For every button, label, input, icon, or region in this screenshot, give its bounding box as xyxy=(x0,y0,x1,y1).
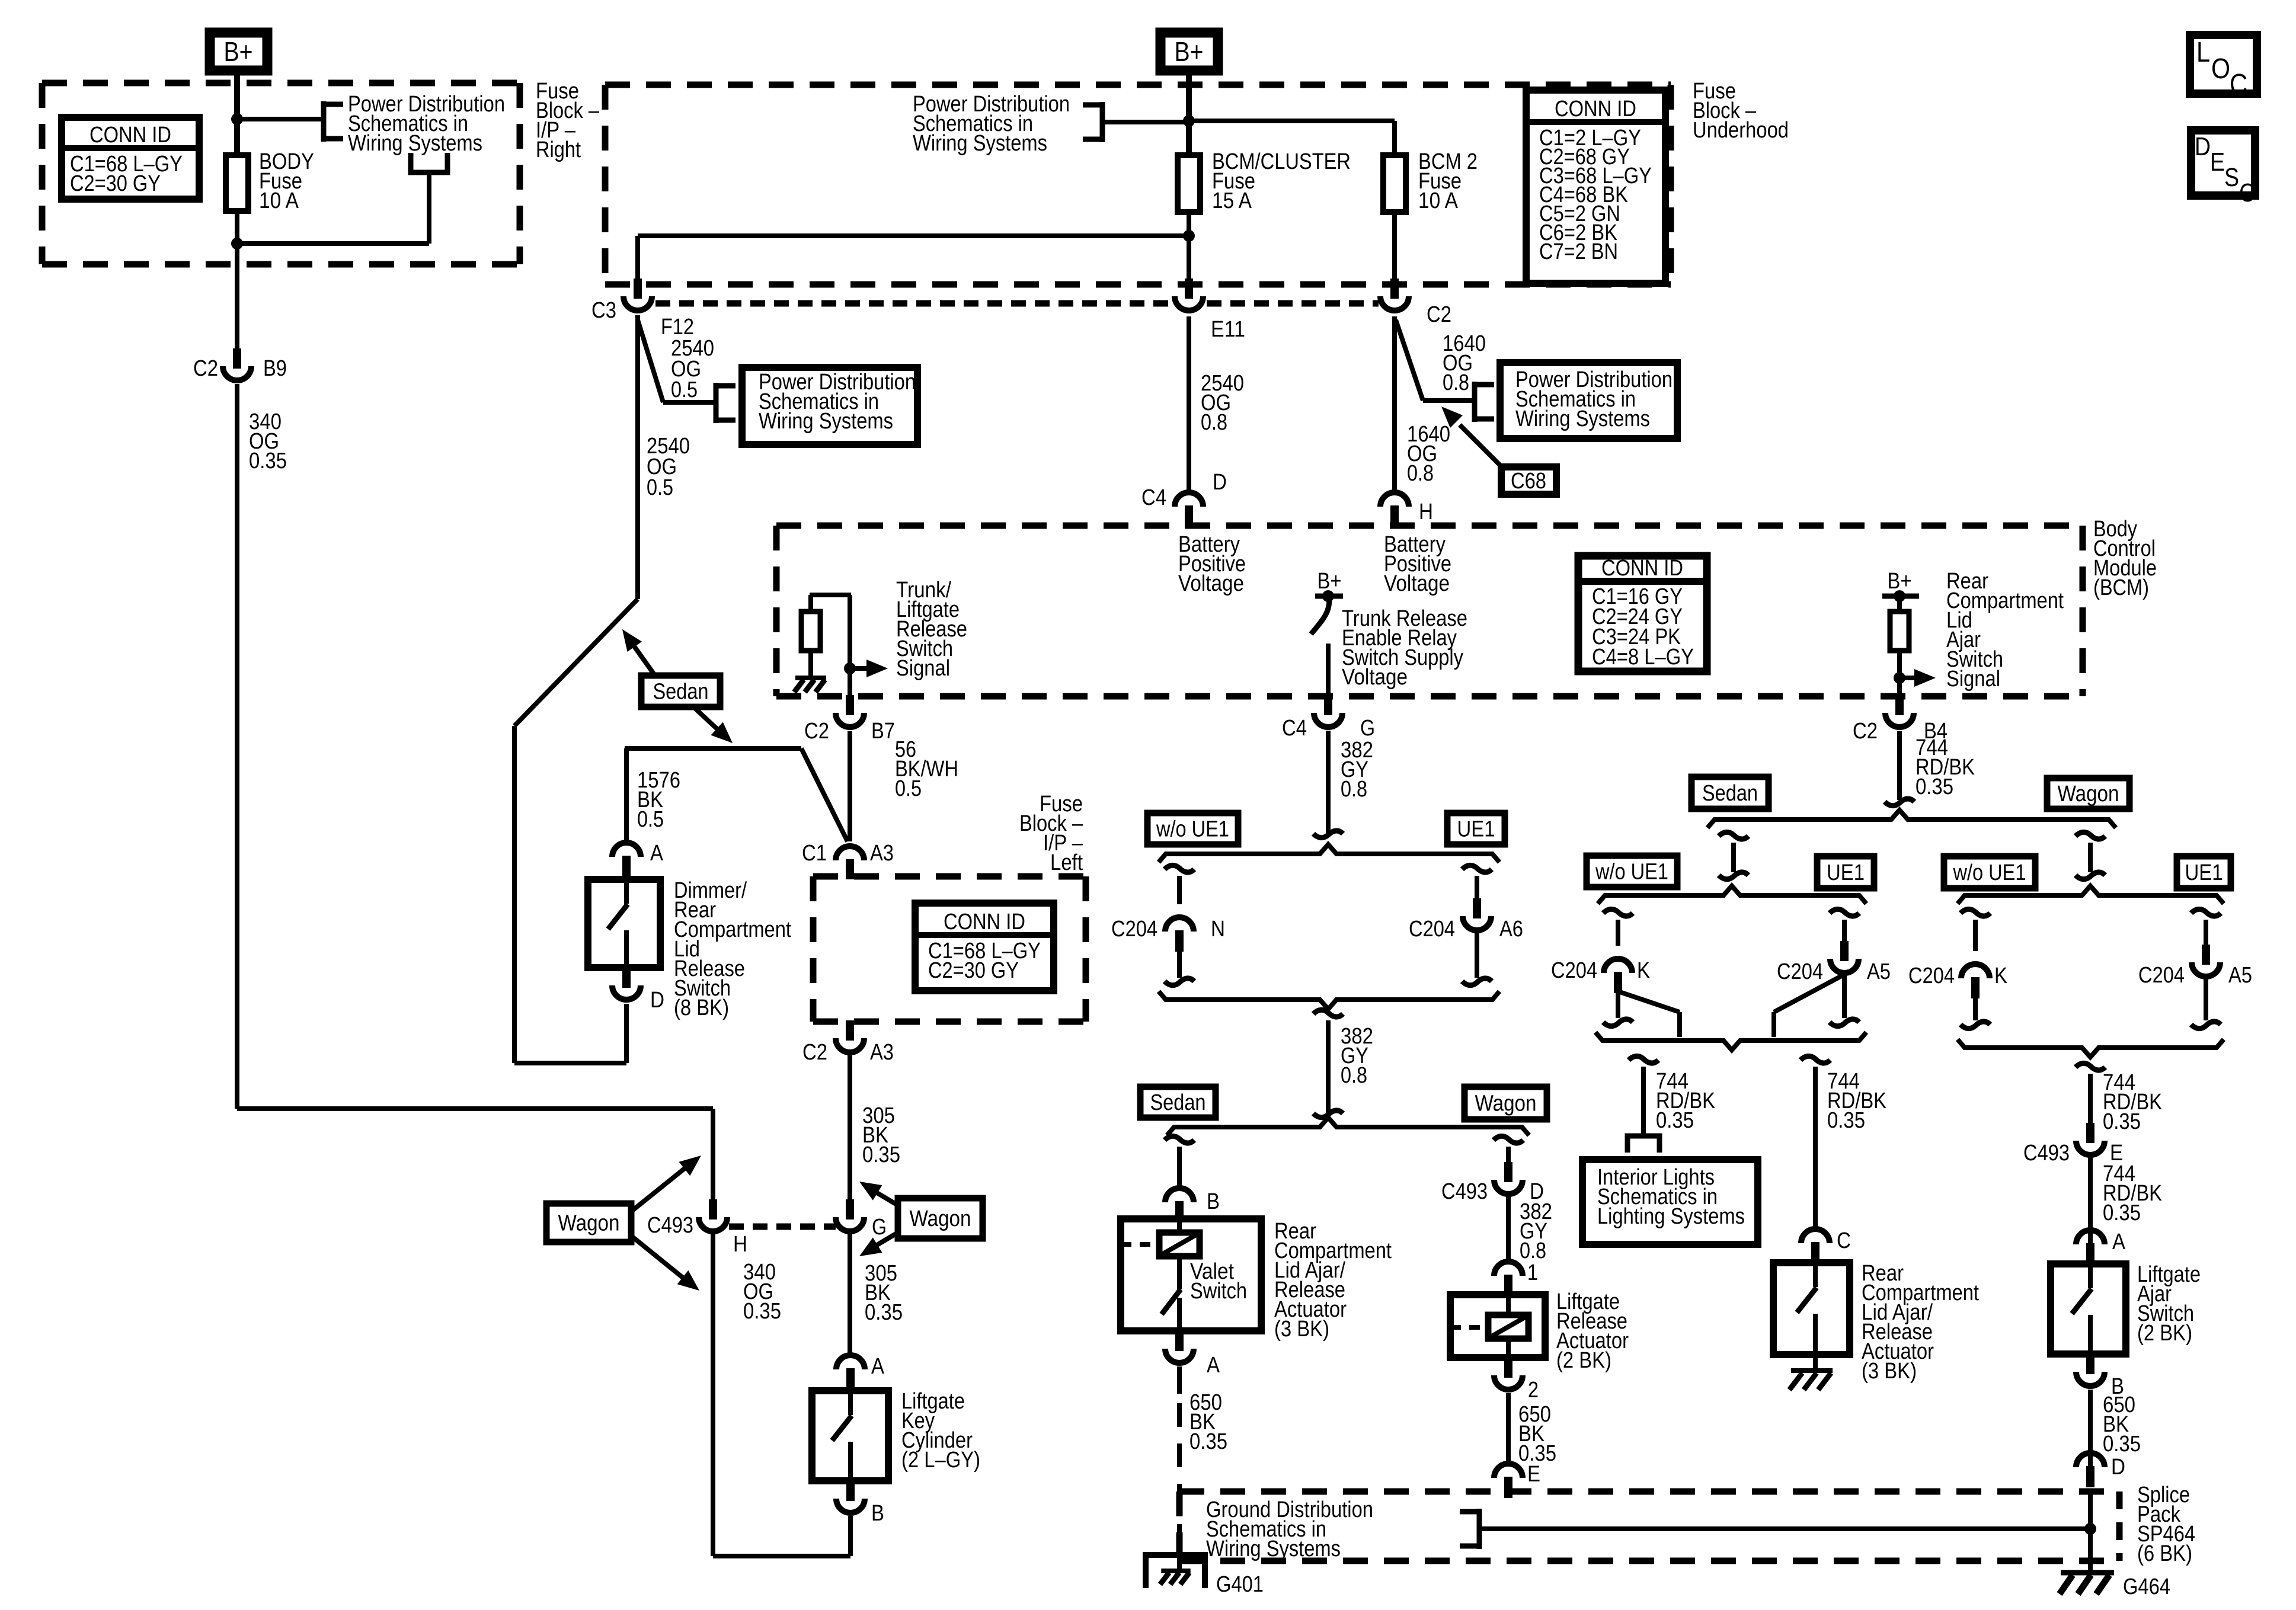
svg-text:H: H xyxy=(1419,500,1433,524)
svg-text:H: H xyxy=(733,1232,747,1257)
wire 56 BK/WH 0.5 (B7 to A3) xyxy=(848,731,852,841)
off-page bracket to Power Distribution box (right) xyxy=(1475,382,1494,422)
wire to C204 A5 (sedan) xyxy=(1842,920,1847,942)
wire fuse to E11 xyxy=(1187,212,1191,280)
label wire 305 BK 0.35 xyxy=(862,1103,900,1167)
wire splice to G464 xyxy=(2088,1491,2093,1571)
rear compartment lid ajar/release actuator box xyxy=(1773,1263,1850,1355)
arrow Wagon-left down xyxy=(633,1237,699,1291)
svg-text:UE1: UE1 xyxy=(1827,860,1865,885)
reference box LOC xyxy=(2190,35,2257,100)
label wire 744 RD/BK 0.35 (interior lights) xyxy=(1656,1069,1715,1133)
svg-text:A5: A5 xyxy=(2228,963,2252,988)
svg-text:15 A: 15 A xyxy=(1212,188,1252,213)
branch curl (wagon w/o UE1) xyxy=(1961,909,1990,916)
svg-text:10 A: 10 A xyxy=(1418,188,1459,213)
svg-text:C: C xyxy=(2230,69,2247,100)
off-page bracket to Power Distribution (left) xyxy=(324,101,343,142)
liftgate ajar switch box xyxy=(2051,1264,2126,1354)
svg-text:Wagon: Wagon xyxy=(910,1206,971,1231)
svg-text:G: G xyxy=(872,1215,887,1240)
wire ground distribution to splice xyxy=(1479,1526,2090,1531)
connector row dashed line xyxy=(655,300,1379,307)
off-page connector (interior lights) xyxy=(1627,1136,1659,1153)
liftgate key cylinder box xyxy=(812,1391,888,1481)
svg-text:C204: C204 xyxy=(1409,917,1455,942)
dashed box ground distribution / splice pack xyxy=(1179,1491,2119,1561)
svg-text:Signal: Signal xyxy=(1946,667,2000,692)
label Body Control Module (BCM) xyxy=(2093,517,2157,600)
label wire 382 GY 0.8 (wagon) xyxy=(1520,1199,1552,1263)
sedan link wire xyxy=(1731,843,1736,872)
connector pin B (liftgate key cylinder) xyxy=(836,1481,884,1526)
dashed box Fuse Block - I/P - Right xyxy=(42,83,520,264)
off-page bracket ground distribution xyxy=(1460,1509,1479,1549)
splice SP464 node xyxy=(2084,1523,2096,1535)
power terminal B+ (underhood feed) xyxy=(1160,33,1218,71)
svg-text:C1: C1 xyxy=(802,841,827,866)
sedan link curl top xyxy=(1719,832,1748,839)
resistor (trunk/liftgate pull-up) xyxy=(801,612,820,651)
resistor (rear compartment lid ajar pull-up) xyxy=(1890,598,1909,651)
svg-text:C204: C204 xyxy=(1777,959,1823,984)
branch curl (wagon UE1) xyxy=(2191,909,2221,916)
svg-text:C4: C4 xyxy=(1141,485,1166,510)
option split brace (w/o UE1 / UE1) xyxy=(1159,844,1499,862)
rear compartment actuator internals xyxy=(1797,1263,1817,1355)
label Trunk Release Enable Relay Switch Supply Voltage xyxy=(1342,606,1467,690)
label BODY Fuse 10 A xyxy=(259,149,314,213)
svg-text:w/o UE1: w/o UE1 xyxy=(1156,817,1229,842)
svg-text:Wagon: Wagon xyxy=(2058,782,2119,806)
connector C2 (underhood) xyxy=(1380,279,1451,327)
svg-text:CONN ID: CONN ID xyxy=(1555,97,1636,121)
wire branch C2 to Power Distribution reference (right) xyxy=(1396,320,1475,401)
connector pin D (dimmer switch) xyxy=(612,968,664,1013)
arrow Wagon-right up xyxy=(859,1182,898,1205)
arrow Sedan to 2540 wire xyxy=(622,629,654,674)
svg-text:C204: C204 xyxy=(1551,958,1597,983)
svg-text:0.35: 0.35 xyxy=(1827,1108,1865,1133)
label Valet Switch xyxy=(1190,1259,1247,1304)
wire coil to box bottom xyxy=(1506,1339,1511,1358)
svg-text:0.8: 0.8 xyxy=(1341,1063,1367,1088)
branch end curl (w/o UE1) xyxy=(1165,978,1194,985)
wire below C204 A6 xyxy=(1475,932,1479,978)
svg-text:C204: C204 xyxy=(1111,917,1157,942)
junction node trunk signal xyxy=(844,662,856,674)
label wire 1640 OG 0.8 (lower) xyxy=(1407,422,1450,486)
label wire F12 2540 OG 0.5 xyxy=(671,336,714,402)
label Power Distribution Schematics in Wiring Systems (underhood) xyxy=(913,92,1070,156)
wire 2540 OG 0.5 main (C3 to dimmer loop) xyxy=(514,315,638,1063)
wire 382 GY 0.8 (merge to sedan/wagon split) xyxy=(1326,1020,1331,1113)
option split brace (Sedan / Wagon) xyxy=(1167,1118,1529,1135)
svg-text:0.35: 0.35 xyxy=(1916,774,1953,799)
label wire 2540 OG 0.8 xyxy=(1201,371,1244,435)
svg-text:w/o UE1: w/o UE1 xyxy=(1595,860,1668,885)
svg-text:(8 BK): (8 BK) xyxy=(674,996,729,1020)
svg-text:Wiring Systems: Wiring Systems xyxy=(759,409,893,434)
svg-text:N: N xyxy=(1211,917,1225,942)
reference box C68 xyxy=(1501,467,1556,494)
svg-text:(2 BK): (2 BK) xyxy=(2137,1321,2192,1346)
wire to C204 K (wagon) xyxy=(1973,920,1978,951)
svg-text:Signal: Signal xyxy=(896,656,950,681)
connector C3 (fuse block) xyxy=(591,279,652,323)
svg-text:B: B xyxy=(871,1501,884,1526)
svg-text:0.35: 0.35 xyxy=(2103,1109,2141,1134)
svg-text:C204: C204 xyxy=(1908,964,1955,988)
dashed link C493 H-G xyxy=(729,1224,836,1230)
svg-text:w/o UE1: w/o UE1 xyxy=(1953,860,2026,885)
connector pin C (rear compartment actuator) xyxy=(1801,1228,1851,1263)
connector C493 pin G xyxy=(836,1199,887,1240)
wire B+ to BCM/CLUSTER fuse xyxy=(1186,71,1192,155)
svg-text:UE1: UE1 xyxy=(1457,817,1495,842)
branch end curl (sedan w/o UE1) xyxy=(1603,1019,1633,1026)
liftgate release actuator coil xyxy=(1450,1315,1528,1339)
branch curl (sedan w/o UE1) xyxy=(1603,909,1633,916)
option box Sedan (right) xyxy=(1691,777,1769,809)
option merge brace (wagon group) xyxy=(1958,1039,2224,1057)
svg-text:Wagon: Wagon xyxy=(558,1211,620,1236)
option box Wagon (right) xyxy=(2047,778,2129,809)
label wire 340 OG 0.35 (lower) xyxy=(743,1260,781,1324)
wire sedan branch to valet switch xyxy=(1177,1147,1182,1189)
svg-text:B+: B+ xyxy=(1318,569,1342,594)
wire BCM2 fuse to C2 xyxy=(1392,212,1397,280)
label wire 744 RD/BK 0.35 (E upper) xyxy=(2103,1070,2162,1134)
label Power Distribution Schematics in Wiring Systems (left) xyxy=(348,92,505,156)
connector C2 pin B7 xyxy=(804,695,895,744)
svg-text:C68: C68 xyxy=(1511,469,1546,494)
svg-text:O: O xyxy=(2211,53,2230,85)
junction node on left feed xyxy=(231,113,243,125)
label wire 56 BK/WH 0.5 xyxy=(895,737,958,801)
crossover wire from A5 xyxy=(1774,975,1843,1037)
connector C493 pin D xyxy=(1441,1162,1544,1204)
svg-text:B+: B+ xyxy=(1888,569,1912,594)
fuse BCM/CLUSTER 15A xyxy=(1178,155,1200,212)
svg-text:B+: B+ xyxy=(1175,36,1204,67)
wire K to merge (wagon) xyxy=(1973,998,1978,1020)
svg-text:Voltage: Voltage xyxy=(1384,571,1450,596)
svg-text:E: E xyxy=(1527,1462,1540,1487)
connector C204 pin N xyxy=(1111,917,1225,952)
label wire 340 OG 0.35 xyxy=(249,409,287,473)
svg-text:(BCM): (BCM) xyxy=(2093,575,2149,600)
svg-text:Underhood: Underhood xyxy=(1693,118,1789,143)
svg-text:0.8: 0.8 xyxy=(1443,370,1469,395)
wire F12 branch to Power Distribution reference xyxy=(638,320,716,402)
connector E11 (fuse block) xyxy=(1175,279,1245,342)
svg-text:G401: G401 xyxy=(1216,1572,1264,1597)
wire A5 to merge xyxy=(1842,974,1847,1018)
svg-text:(2 L–GY): (2 L–GY) xyxy=(901,1448,980,1473)
svg-text:B7: B7 xyxy=(871,719,895,744)
wire to C204 K (sedan) xyxy=(1616,920,1620,946)
svg-text:Wagon: Wagon xyxy=(1475,1092,1537,1116)
output curl (liftgate ajar) xyxy=(2076,1063,2105,1070)
svg-text:Voltage: Voltage xyxy=(1342,665,1408,690)
junction node rear compartment signal xyxy=(1894,672,1905,684)
CONN ID table (fuse block right) xyxy=(62,117,199,199)
svg-text:S: S xyxy=(2224,163,2239,192)
dimmer switch box xyxy=(588,879,660,968)
option box UE1 (wagon) xyxy=(2177,856,2231,888)
branch curl (Wagon liftgate) xyxy=(1494,1136,1523,1143)
svg-text:A: A xyxy=(650,841,664,866)
svg-text:0.35: 0.35 xyxy=(2103,1201,2141,1225)
option split brace (sedan w/o UE1 / UE1) xyxy=(1598,886,1866,904)
wire K to merge xyxy=(1616,993,1620,1018)
label Battery Positive Voltage (right) xyxy=(1384,532,1451,596)
arrow Wagon-right down xyxy=(859,1233,898,1256)
junction node C3 feed xyxy=(1183,230,1195,242)
svg-text:Wiring Systems: Wiring Systems xyxy=(1515,406,1650,431)
label Rear Compartment Lid Ajar/Release Actuator (3 BK) xyxy=(1862,1261,1979,1384)
connector pin E (ground distribution) xyxy=(1494,1462,1540,1498)
wire detent to contact xyxy=(1177,1256,1182,1289)
label wire 744 RD/BK 0.35 (B4) xyxy=(1916,735,1975,799)
svg-text:Wiring Systems: Wiring Systems xyxy=(348,131,482,156)
connector C204 pin A6 xyxy=(1409,898,1523,942)
option box UE1 (right) xyxy=(1447,813,1505,844)
connector C204 pin A5 (sedan) xyxy=(1777,941,1891,984)
crossover wire from K xyxy=(1620,992,1680,1037)
svg-text:0.5: 0.5 xyxy=(637,807,664,832)
svg-text:B: B xyxy=(1207,1189,1220,1214)
option box Wagon (liftgate) xyxy=(1464,1087,1547,1119)
wire 744 RD/BK 0.35 (B4 down) xyxy=(1897,731,1902,800)
dashed box Body Control Module (BCM) xyxy=(776,526,2083,696)
branch end curl (UE1) xyxy=(1462,978,1492,985)
svg-text:10 A: 10 A xyxy=(259,188,299,213)
svg-text:K: K xyxy=(1994,964,2007,988)
wire C3 feed run xyxy=(638,236,1189,280)
svg-text:C: C xyxy=(2239,178,2255,207)
valet switch detent xyxy=(1121,1233,1200,1256)
svg-text:L: L xyxy=(2196,37,2210,68)
svg-text:D: D xyxy=(650,988,664,1013)
svg-text:B9: B9 xyxy=(263,356,287,381)
svg-text:Wiring Systems: Wiring Systems xyxy=(913,131,1047,156)
terminal B+ (rear compartment lid ajar) xyxy=(1882,569,1919,602)
svg-text:C2: C2 xyxy=(1427,302,1451,327)
connector pin A (liftgate ajar switch) xyxy=(2076,1230,2126,1265)
svg-text:C493: C493 xyxy=(647,1213,693,1238)
branch curl (w/o UE1) xyxy=(1165,865,1194,872)
svg-text:A3: A3 xyxy=(870,1040,894,1065)
label Liftgate Release Actuator (2 BK) xyxy=(1556,1289,1629,1373)
junction node below BODY fuse xyxy=(231,238,243,249)
ground G464 xyxy=(2060,1573,2170,1599)
svg-text:A3: A3 xyxy=(870,841,894,866)
svg-text:D: D xyxy=(2195,132,2211,161)
svg-text:0.35: 0.35 xyxy=(1189,1429,1227,1454)
connector C2 pin A3 (out of fuse block left) xyxy=(802,1020,894,1065)
wire w/o UE1 branch to C204 N xyxy=(1177,876,1182,904)
sedan link curl bottom xyxy=(1719,872,1748,879)
svg-text:0.35: 0.35 xyxy=(865,1300,903,1325)
wire 744 RD/BK (to C493 E) xyxy=(2088,1074,2093,1124)
svg-text:(3 BK): (3 BK) xyxy=(1274,1317,1329,1342)
fuse BODY 10A xyxy=(226,155,248,211)
label Fuse Block - Underhood xyxy=(1693,79,1789,143)
svg-text:CONN ID: CONN ID xyxy=(89,123,171,148)
option box w/o UE1 (sedan) xyxy=(1587,856,1677,887)
svg-text:Wiring Systems: Wiring Systems xyxy=(1206,1537,1341,1561)
connector pin D (splice pack) xyxy=(2076,1453,2125,1487)
label Rear Compartment Lid Ajar/Release Actuator (3 BK) xyxy=(1274,1219,1392,1342)
wire end curl (382 into sedan/wagon split) xyxy=(1313,1110,1343,1118)
label Fuse Block - I/P - Right xyxy=(536,79,600,162)
liftgate key cylinder internals xyxy=(832,1391,852,1481)
label box Wagon (left) xyxy=(546,1204,631,1242)
switch blade (trunk release enable relay) xyxy=(1311,598,1329,634)
svg-text:E11: E11 xyxy=(1211,317,1245,342)
wire off-page drop to node xyxy=(237,172,429,244)
valet switch lower contact xyxy=(1177,1298,1182,1331)
wire 305 BK 0.35 (A3 to G) xyxy=(848,1055,852,1201)
Power Distribution Schematics reference box (right) xyxy=(1500,363,1677,438)
svg-text:C2: C2 xyxy=(804,719,829,744)
off-page bracket Power Distribution (underhood) xyxy=(1083,102,1102,142)
CONN ID table (underhood) xyxy=(1526,90,1665,283)
option box w/o UE1 (left) xyxy=(1147,813,1238,844)
wire resistor to C2 B4 xyxy=(1897,651,1902,699)
svg-text:0.8: 0.8 xyxy=(1407,461,1434,486)
svg-text:C2: C2 xyxy=(1853,719,1878,744)
svg-text:Sedan: Sedan xyxy=(1702,781,1758,806)
connector pin B (valet switch) xyxy=(1165,1188,1220,1222)
wire end curl (B4 into split) xyxy=(1885,799,1914,806)
svg-text:A: A xyxy=(871,1354,885,1379)
wire 650 BK 0.35 (valet to G401) xyxy=(1177,1366,1182,1541)
label Liftgate Key Cylinder (2 L-GY) xyxy=(901,1389,980,1473)
terminal B+ (trunk release enable relay) xyxy=(1315,569,1343,602)
label wire 1640 OG 0.8 (upper) xyxy=(1443,331,1486,395)
wire 382 GY 0.8 (D to actuator) xyxy=(1506,1195,1511,1263)
label Ground Distribution Schematics in Wiring Systems xyxy=(1206,1497,1373,1561)
wire end curl (382 into split) xyxy=(1313,831,1343,838)
arrow Wagon-left up xyxy=(633,1156,701,1210)
wire A5 to merge (wagon) xyxy=(2204,978,2208,1020)
connector C204 pin K (wagon) xyxy=(1908,964,2007,998)
label Splice Pack SP464 (6 BK) xyxy=(2137,1483,2195,1566)
svg-text:G: G xyxy=(1360,716,1375,741)
label box Wagon (right) xyxy=(898,1198,983,1238)
output curl (rear compartment actuator) xyxy=(1801,1056,1830,1063)
fuse BCM 2 10A xyxy=(1383,155,1406,212)
label Fuse Block - I/P - Left xyxy=(1019,792,1083,875)
label pin F12 xyxy=(661,315,694,340)
wire 744 RD/BK to interior lights xyxy=(1641,1067,1646,1135)
svg-text:C2=30 GY: C2=30 GY xyxy=(928,958,1019,983)
dimmer switch internals xyxy=(608,879,628,968)
svg-text:0.5: 0.5 xyxy=(895,776,922,801)
wire relay to C4 G xyxy=(1326,644,1331,699)
svg-text:A: A xyxy=(1207,1353,1220,1378)
connector C1 pin A3 (into fuse block left) xyxy=(802,841,894,879)
option merge brace (382 GY) xyxy=(1159,991,1499,1009)
label Rear Compartment Lid Ajar Switch Signal xyxy=(1946,569,2064,692)
svg-text:(2 BK): (2 BK) xyxy=(1556,1348,1611,1373)
svg-text:A: A xyxy=(2112,1230,2126,1254)
label wire 1576 BK 0.5 xyxy=(637,768,680,832)
svg-text:Switch: Switch xyxy=(1190,1279,1247,1304)
wire to C2 B7 xyxy=(848,595,852,699)
wire 305 BK (G to key cylinder) xyxy=(848,1231,852,1356)
svg-text:C493: C493 xyxy=(1441,1179,1488,1204)
svg-text:0.35: 0.35 xyxy=(249,449,287,473)
label wire 744 RD/BK 0.35 (E lower) xyxy=(2103,1161,2162,1225)
svg-text:E: E xyxy=(2210,148,2225,177)
svg-text:C2: C2 xyxy=(802,1040,827,1065)
wire actuator to ground xyxy=(1813,1355,1818,1371)
wire node to off-page bracket xyxy=(237,117,324,121)
wire into liftgate release actuator xyxy=(1506,1297,1511,1316)
svg-text:0.5: 0.5 xyxy=(671,377,698,402)
svg-text:Left: Left xyxy=(1050,850,1083,875)
junction node BCM feed xyxy=(1183,115,1195,127)
svg-text:A6: A6 xyxy=(1499,917,1523,942)
ground (BCM internal left) xyxy=(794,678,826,692)
wire 382 GY 0.8 (G to brace) xyxy=(1326,731,1331,834)
connector C204 pin A5 (wagon) xyxy=(2138,945,2252,988)
wagon link curl top xyxy=(2076,832,2105,839)
svg-text:0.35: 0.35 xyxy=(743,1299,781,1324)
svg-text:0.8: 0.8 xyxy=(1520,1238,1546,1263)
svg-text:Lighting Systems: Lighting Systems xyxy=(1597,1204,1745,1229)
valet switch box xyxy=(1121,1219,1261,1331)
svg-text:Voltage: Voltage xyxy=(1178,571,1244,596)
label Dimmer/Rear Compartment Lid Release Switch (8 BK) xyxy=(674,878,791,1020)
wire 650 BK 0.35 (B to D) xyxy=(2088,1390,2093,1467)
svg-text:(6 BK): (6 BK) xyxy=(2137,1541,2192,1566)
svg-text:C493: C493 xyxy=(2023,1141,2070,1166)
wagon link curl bottom xyxy=(2076,872,2105,879)
svg-text:1: 1 xyxy=(1527,1260,1538,1285)
connector pin B (liftgate ajar switch) xyxy=(2076,1354,2124,1399)
svg-text:0.5: 0.5 xyxy=(647,475,673,500)
label Battery Positive Voltage (left) xyxy=(1178,532,1246,596)
wire dimmer feed (1576 BK to A3) xyxy=(625,748,848,844)
svg-text:0.35: 0.35 xyxy=(1656,1108,1694,1133)
svg-text:A5: A5 xyxy=(1867,959,1891,984)
label wire 650 BK 0.35 (right) xyxy=(2103,1393,2141,1457)
branch curl (UE1) xyxy=(1462,865,1492,872)
wire to C204 A5 (wagon) xyxy=(2204,920,2208,946)
wire 1640 OG 0.8 (C2 to BCM H) xyxy=(1392,316,1397,495)
wire into valet switch xyxy=(1177,1222,1182,1234)
svg-text:C7=2 BN: C7=2 BN xyxy=(1539,239,1618,264)
off-page bracket to Power Distribution box (mid-left) xyxy=(716,383,736,423)
wire resistor to ground xyxy=(808,651,813,678)
arrow C68 to wire xyxy=(1441,406,1505,470)
svg-text:Sedan: Sedan xyxy=(653,680,709,705)
label wire 650 BK 0.35 (wagon) xyxy=(1518,1402,1556,1466)
option box UE1 (sedan) xyxy=(1817,856,1874,888)
reference box DESC xyxy=(2191,130,2255,207)
wagon link wire xyxy=(2088,843,2093,872)
wire 340 OG 0.35 (B9 down-left run) xyxy=(237,384,713,1201)
label BCM/CLUSTER Fuse 15 A xyxy=(1212,149,1351,213)
svg-text:0.8: 0.8 xyxy=(1341,777,1367,802)
connector C4 pin G (out of BCM) xyxy=(1282,695,1375,741)
liftgate ajar switch internals xyxy=(2072,1264,2092,1354)
